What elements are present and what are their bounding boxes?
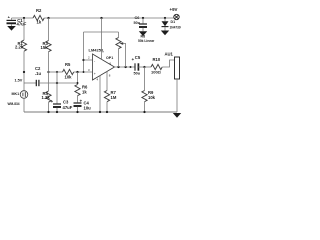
node A (mic / C2 junction) — [23, 71, 25, 73]
node (wiper join) — [124, 66, 126, 68]
op-amp OP1 — [93, 54, 115, 80]
svg-text:100Ω: 100Ω — [151, 69, 162, 74]
node (R9 tap) — [143, 66, 145, 68]
svg-text:+: + — [51, 99, 54, 104]
node rail pin4 — [99, 111, 101, 113]
svg-text:7: 7 — [102, 50, 104, 54]
wire earphone to ground rail — [176, 79, 178, 112]
svg-text:OP1: OP1 — [106, 56, 113, 60]
node rail C4 — [76, 111, 78, 113]
node (pot bottom) — [117, 66, 119, 68]
node (C3 tap) — [56, 71, 58, 73]
resistor R2 — [33, 15, 44, 20]
capacitor C1 — [11, 18, 13, 20]
svg-text:4: 4 — [97, 78, 99, 82]
svg-text:1.5V: 1.5V — [15, 79, 23, 83]
pot wiper arrow — [122, 44, 126, 68]
wire pin8 lead — [106, 72, 108, 91]
svg-text:50k Linear: 50k Linear — [138, 39, 155, 43]
svg-text:AU1: AU1 — [165, 52, 174, 57]
resistor R9 — [142, 91, 147, 102]
svg-text:C6: C6 — [135, 16, 140, 20]
svg-text:+: + — [94, 72, 96, 76]
svg-text:+: + — [8, 15, 11, 20]
svg-text:+: + — [80, 99, 83, 104]
earphone AU1 — [175, 57, 180, 79]
+9V supply terminal — [174, 14, 179, 19]
node rail R4 — [47, 111, 49, 113]
svg-text:50u: 50u — [134, 21, 141, 25]
wire R3 lower lead — [48, 52, 50, 72]
capacitor C5 — [134, 63, 136, 70]
resistor R1 — [21, 40, 26, 51]
resistor R6 — [75, 85, 80, 96]
node rail C3 — [56, 111, 58, 113]
svg-text:10k: 10k — [65, 74, 73, 79]
svg-text:47uF: 47uF — [17, 22, 27, 27]
capacitor C6 — [139, 23, 147, 25]
svg-text:-: - — [94, 59, 96, 63]
svg-text:2.2k: 2.2k — [15, 45, 24, 50]
resistor R7 — [104, 91, 109, 102]
svg-text:R5: R5 — [65, 62, 71, 67]
ground (under D1) — [161, 31, 169, 36]
svg-text:WM-834: WM-834 — [8, 102, 20, 106]
svg-text:R10: R10 — [153, 57, 161, 62]
wire top supply rail left segment — [12, 17, 34, 19]
wire feedback horizontal — [84, 31, 119, 33]
node (C6 to rail) — [142, 17, 144, 19]
resistor R10 — [151, 64, 162, 69]
node (C5 left) — [130, 66, 132, 68]
node (feedback chain tap) — [76, 71, 78, 73]
wire R9 upper lead — [144, 67, 146, 91]
node (R1 to rail) — [23, 17, 25, 19]
node (D1 to rail) — [164, 17, 166, 19]
wire ground rail — [24, 111, 177, 113]
svg-text:.1u: .1u — [35, 71, 41, 76]
node rail R7 — [106, 111, 108, 113]
svg-text:47uF: 47uF — [63, 105, 73, 110]
wire pot bottom lead — [118, 49, 120, 67]
svg-text:D1: D1 — [171, 20, 176, 24]
svg-text:R2: R2 — [36, 8, 42, 13]
capacitor C3 — [53, 103, 61, 105]
wire R1 lower lead to mic node — [23, 51, 25, 90]
node rail R9 — [143, 111, 145, 113]
wire R5 to op-amp input — [74, 71, 93, 73]
wire C3 upper lead — [56, 72, 58, 103]
svg-text:+9V: +9V — [170, 7, 178, 12]
wire R4 lower lead — [48, 102, 50, 112]
svg-text:10u: 10u — [84, 105, 92, 110]
wire C6 upper lead — [142, 18, 144, 23]
node (inverting input tap) — [82, 59, 84, 61]
svg-text:15k: 15k — [41, 45, 49, 50]
capacitor C2 — [24, 82, 36, 84]
svg-text:1N4739: 1N4739 — [170, 26, 181, 30]
wire pot top lead — [118, 32, 120, 38]
capacitor C4 — [74, 102, 82, 104]
svg-text:1k: 1k — [82, 90, 87, 95]
wire inverting input stub — [84, 59, 93, 61]
node B (R3/R4 divider) — [47, 71, 49, 73]
resistor R3 — [46, 41, 51, 52]
svg-text:1M: 1M — [111, 95, 117, 100]
wire R4 upper lead — [48, 72, 50, 91]
wire to R10 — [145, 66, 152, 68]
svg-text:10k: 10k — [148, 95, 156, 100]
node (feedback/signal T) — [83, 71, 85, 73]
svg-text:1.2k: 1.2k — [42, 95, 51, 100]
wire R6 to C4 — [77, 96, 79, 103]
resistor R5 — [49, 71, 63, 73]
svg-text:C3: C3 — [63, 100, 69, 105]
wire R10 to earphone — [162, 60, 174, 67]
potentiometer R8 — [116, 38, 121, 49]
microphone MK1 — [20, 91, 28, 99]
svg-text:MK1: MK1 — [12, 92, 20, 96]
ground (under C6) — [139, 31, 147, 36]
svg-text:50u: 50u — [134, 71, 141, 75]
svg-text:2: 2 — [88, 56, 90, 60]
wire R6 upper lead — [77, 72, 79, 85]
svg-text:C5: C5 — [135, 55, 141, 60]
wire feedback vertical — [83, 32, 85, 72]
svg-text:8: 8 — [109, 73, 111, 77]
wire R7 lower lead — [106, 102, 108, 112]
wire top supply rail right segment — [44, 17, 173, 19]
ground (rail right end) — [173, 113, 181, 118]
wire R9 lower lead — [144, 102, 146, 112]
svg-text:1k: 1k — [37, 20, 42, 25]
wire output — [115, 66, 135, 68]
wire R1 upper lead — [23, 18, 25, 40]
diode D1 — [164, 18, 166, 21]
node (V+ to rail) — [100, 17, 102, 19]
node (R3 to rail) — [47, 17, 49, 19]
wire R3 upper lead — [48, 18, 50, 41]
wire V+ supply to op-amp — [101, 18, 103, 59]
wire mic bottom lead — [23, 98, 25, 112]
svg-text:3: 3 — [88, 68, 90, 72]
ground (under C1) — [7, 26, 16, 31]
wire pin4 to ground rail — [99, 76, 101, 112]
resistor R4 — [46, 91, 51, 102]
